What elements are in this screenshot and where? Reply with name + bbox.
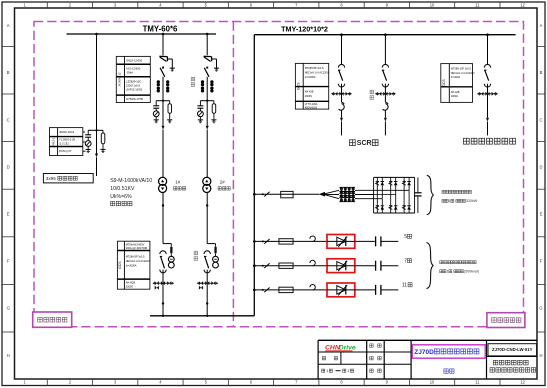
svg-text:450/V600S: 450/V600S — [305, 107, 318, 110]
wire T2 secondary — [206, 192, 208, 243]
cable arrow feeder 1 — [161, 101, 164, 130]
transformer T1 — [159, 177, 167, 192]
svg-text:In=200A: In=200A — [451, 76, 461, 79]
current transformers TA1 — [157, 80, 170, 92]
busbar TMY-120*10*2 — [254, 34, 515, 36]
junction tee PT branch 1 — [163, 244, 171, 247]
breaker blade feeder AUX — [484, 70, 489, 81]
svg-text:MT28H-10F 3x0.5: MT28H-10F 3x0.5 — [451, 67, 472, 70]
wire ACB1 to CT row — [162, 270, 164, 284]
wire outgoing feeder AUX — [487, 35, 489, 65]
svg-text:XGN66-12: XGN66-12 — [118, 72, 122, 87]
svg-text:DXN-Q 2T: DXN-Q 2T — [59, 149, 72, 153]
top zone numbers 1-12 — [23, 2, 525, 7]
wire feeder SCR-1 mid — [341, 84, 343, 94]
breaker blade feeder SCR-2 — [382, 70, 387, 81]
svg-text:GCS: GCS — [118, 261, 122, 269]
svg-text:MT28H/3P 3x0.5,: MT28H/3P 3x0.5, — [126, 256, 146, 259]
svg-text:GN19-12/630: GN19-12/630 — [126, 59, 143, 63]
wire rectifier branch — [254, 193, 319, 195]
rectifier bridge U1 thyristors bottom — [376, 206, 411, 210]
svg-text:G: G — [7, 306, 10, 311]
wire feeder AUX mid — [487, 84, 489, 94]
wire outgoing feeder SCR-2 — [384, 35, 386, 65]
breaker ACB1 drawout bottom — [160, 270, 166, 273]
arrester incoming FV — [85, 141, 91, 149]
svg-text:320kW: 320kW — [466, 199, 478, 203]
breaker ACB1 blade — [160, 256, 165, 268]
svg-text:H: H — [539, 353, 542, 358]
CT row feeder AUX — [477, 92, 498, 96]
current transformer curl feeder SCR-1 — [339, 94, 345, 118]
label designed cell — [370, 344, 381, 347]
capacitor incoming surge C — [85, 130, 91, 140]
svg-text:S9-M-1600kVA/10: S9-M-1600kVA/10 — [110, 178, 152, 184]
cable arrow feeder SCR-1 — [340, 118, 343, 136]
svg-text:Y1.5WS-0.28: Y1.5WS-0.28 — [59, 138, 75, 142]
svg-text:A: A — [540, 23, 543, 28]
isolating switch rectifier — [262, 192, 270, 197]
wire HV feeder 2 — [206, 34, 208, 55]
ground earth-switch QS2 — [214, 68, 219, 71]
ground arrester 1 — [154, 120, 159, 123]
svg-text:JYN2-12: JYN2-12 — [52, 135, 56, 147]
svg-text:D: D — [539, 164, 542, 169]
wire stubs PT table to branch — [83, 132, 86, 151]
logo CHNDrive — [325, 344, 356, 351]
current transformers TA2 — [201, 80, 214, 92]
label harmonic order 7th — [404, 259, 411, 265]
svg-text:2#: 2# — [220, 179, 226, 184]
ground tube 1 — [167, 120, 172, 123]
svg-text:11: 11 — [475, 2, 480, 7]
svg-text:E: E — [7, 212, 10, 217]
junction tee arrester branch 1 — [156, 100, 170, 102]
current transformer curl feeder SCR-2 — [383, 94, 389, 118]
svg-text:1: 1 — [347, 368, 349, 373]
disconnector QS1 with earth switch — [159, 56, 172, 67]
room label LV house — [487, 313, 525, 328]
cable arrow feeder SCR-2 — [384, 118, 387, 136]
outgoing table GCS 2 — [441, 64, 475, 103]
CT row feeder 1 — [153, 281, 174, 290]
fuse FU rectifier — [281, 191, 293, 197]
svg-text:12: 12 — [520, 380, 525, 385]
drawing title box — [412, 345, 485, 358]
svg-text:H: H — [7, 353, 10, 358]
wire QF1 to CT — [162, 77, 164, 101]
capacitor DC link — [414, 177, 421, 213]
svg-text:GCS: GCS — [296, 82, 300, 90]
breaker blade QF1 — [160, 68, 165, 77]
wire QF2 to CT — [206, 77, 208, 101]
svg-text:MT28H/3P 3x0.5,: MT28H/3P 3x0.5, — [305, 67, 325, 70]
CT curl filter 7th — [310, 260, 315, 265]
svg-text:12: 12 — [520, 2, 525, 7]
brace filter group — [427, 243, 434, 289]
label harmonic order 11th — [402, 283, 412, 289]
label transformer 2# — [218, 179, 230, 190]
svg-text:In=1600A: In=1600A — [305, 76, 316, 79]
drawout contact bottom feeder SCR-1 — [338, 84, 344, 87]
wire to transformer T2 — [206, 130, 208, 178]
label scale cell — [322, 356, 337, 359]
cable arrow feeder AUX — [486, 118, 489, 136]
wire phases to bridge — [355, 190, 374, 198]
svg-text:JDZJ9-10G3: JDZJ9-10G3 — [59, 130, 75, 134]
fuse FU filter 5th — [279, 239, 293, 244]
svg-text:/1.3 131: /1.3 131 — [59, 142, 69, 146]
svg-text:/10P15 10/5S: /10P15 10/5S — [126, 88, 142, 92]
svg-text:Uk%=6%: Uk%=6% — [110, 194, 132, 200]
left zone strip dividers — [2, 46, 15, 332]
capacitor filter C5th — [376, 236, 399, 246]
arrester F1 — [153, 111, 159, 119]
fuse PT 2 — [214, 247, 216, 253]
svg-text:HY5WS-17/50: HY5WS-17/50 — [126, 97, 144, 101]
svg-text:1: 1 — [326, 368, 328, 373]
svg-text:SCR: SCR — [357, 140, 372, 147]
svg-text:7: 7 — [404, 259, 407, 265]
node busbar2 taps — [340, 33, 489, 36]
fuse FU filter 7th — [279, 263, 293, 268]
wire ACB2 to CT row — [206, 270, 208, 284]
svg-text:C: C — [539, 117, 542, 122]
svg-text:F: F — [540, 259, 543, 264]
CT row feeder SCR-1 — [331, 92, 352, 96]
label checked cell — [370, 356, 381, 359]
label to auxiliary box transformer — [463, 138, 515, 144]
label TMY-120*10*2 — [281, 25, 328, 34]
breaker blade feeder SCR-1 — [338, 70, 343, 81]
junction tee arrester branch 2 — [200, 100, 214, 102]
transformer T2 — [203, 177, 211, 192]
svg-text:11: 11 — [475, 380, 480, 385]
svg-text:-25kA: -25kA — [126, 70, 133, 74]
title block grid — [318, 340, 537, 379]
disconnector QS2 with earth switch — [204, 56, 217, 67]
drawout contact top feeder SCR-2 — [382, 64, 388, 67]
svg-text:TMY-120*10*2: TMY-120*10*2 — [281, 25, 328, 34]
label TMY-60*6 — [143, 24, 178, 33]
capacitor filter C7th — [376, 261, 399, 271]
breaker blade QF2 — [204, 68, 209, 77]
dashed room divider wall — [232, 22, 234, 327]
arrester tube 2 — [212, 101, 216, 120]
svg-text:10: 10 — [430, 380, 435, 385]
svg-text:TMY-60*6: TMY-60*6 — [143, 24, 178, 33]
reactor L2 — [339, 191, 355, 197]
svg-text:3x95: 3x95 — [46, 176, 56, 181]
capacitor surge 2 — [197, 101, 203, 111]
PT cubicle table incoming — [50, 128, 83, 156]
value label transformer specs — [110, 178, 152, 206]
label drawing number — [488, 344, 537, 356]
wire feeder 2 to LV bus — [206, 283, 208, 316]
label sheet count cell — [322, 368, 354, 373]
label same-as-left LV — [194, 251, 198, 260]
ground incoming right — [100, 149, 105, 152]
label to SCR house — [349, 140, 378, 147]
busbar TMY-60*6 — [67, 33, 217, 35]
LV switchgear table GCS left — [117, 241, 150, 289]
node riser taps — [253, 193, 256, 291]
svg-text:150/5 2x0.5: 150/5 2x0.5 — [126, 84, 141, 88]
dashed room boundary frame — [34, 22, 524, 327]
svg-text:AH-42B: AH-42B — [451, 91, 460, 94]
svg-text:C: C — [7, 117, 10, 122]
label same-as-left HV — [191, 77, 195, 86]
thyristor valve V7th in red box — [327, 259, 375, 273]
svg-text:D: D — [7, 164, 10, 169]
label approved cell — [370, 369, 381, 372]
wire feeder 1 to LV bus — [162, 283, 164, 316]
wire filter branch 5th — [254, 240, 327, 242]
wire HV feeder 1 — [162, 34, 164, 55]
CT curl filter 11th — [310, 284, 315, 289]
label company name — [490, 360, 536, 372]
svg-text:Drive: Drive — [339, 344, 356, 351]
label same-as-left outgoing — [370, 90, 374, 99]
junction dot QS1 — [162, 67, 164, 69]
wire filter branch 11th — [254, 289, 327, 291]
bottom zone numbers 1-12 — [23, 380, 525, 385]
rectifier bridge U1 rails — [374, 177, 415, 213]
room label HV house — [33, 312, 72, 327]
reactor L3 — [339, 196, 355, 202]
CT curl filter 5th — [310, 236, 315, 241]
wire feeder AUX lower — [487, 94, 489, 118]
svg-text:GCS: GCS — [442, 79, 446, 87]
ground arrester 2 — [198, 120, 203, 123]
left zone letters A-H — [7, 23, 10, 358]
wire filter branch 7th — [254, 265, 327, 267]
junction dot QS2 — [206, 67, 208, 69]
svg-text:B: B — [540, 70, 543, 75]
wire LV main riser — [253, 35, 255, 316]
cable arrow incoming — [95, 154, 98, 177]
svg-text:11: 11 — [402, 283, 407, 289]
svg-text:5: 5 — [404, 234, 407, 240]
breaker ACB2 blade — [204, 256, 209, 268]
breaker ACB2 drawout bottom — [204, 270, 210, 273]
svg-text:AH-42B: AH-42B — [305, 91, 314, 94]
svg-text:10: 10 — [430, 2, 435, 7]
breaker ACB1 drawout top — [160, 251, 166, 254]
svg-text:2000S: 2000S — [305, 95, 313, 98]
arrester tube 1 — [168, 101, 172, 120]
svg-text:NECA/A 1/-0 AC220V: NECA/A 1/-0 AC220V — [451, 72, 475, 75]
reactor L1 — [339, 187, 355, 193]
label transformer 1# — [174, 179, 186, 190]
capacitor filter C11th — [376, 285, 399, 295]
svg-text:E: E — [540, 212, 543, 217]
label drafter name — [444, 369, 454, 373]
right zone strip dividers — [537, 46, 545, 332]
svg-text:ZJ70D-CND-LW-01Y: ZJ70D-CND-LW-01Y — [492, 347, 533, 352]
drawout contact bottom feeder AUX — [484, 84, 490, 87]
wire phase jogs inside bridge — [374, 190, 410, 198]
CT row feeder SCR-2 — [375, 92, 396, 96]
value label rectifier — [442, 190, 478, 203]
capacitor surge 1 — [153, 101, 159, 111]
svg-text:400A-Q2 400/700R: 400A-Q2 400/700R — [126, 247, 148, 250]
drawout contact top feeder AUX — [484, 64, 490, 67]
junction tee incoming PT branch — [88, 129, 103, 131]
LV busbar left section — [150, 315, 254, 317]
drawout contact top feeder SCR-1 — [338, 64, 344, 67]
value label SVC filter — [440, 261, 479, 274]
cable arrow feeder 2 — [206, 101, 209, 130]
svg-text:10/0.51KV: 10/0.51KV — [110, 186, 135, 192]
metering PT 2 — [213, 253, 219, 268]
rectifier bridge U1 legs — [377, 177, 409, 213]
ground incoming left — [86, 149, 91, 152]
drawout contact bottom feeder SCR-2 — [382, 84, 388, 87]
svg-text:VS1-12/630: VS1-12/630 — [126, 67, 141, 71]
isolating switch filter 11th — [262, 288, 270, 293]
label 3x95 HV cable box — [43, 174, 93, 183]
svg-text:(500kvar): (500kvar) — [464, 270, 479, 274]
ground tube 2 — [211, 120, 216, 123]
rectifier bridge U1 thyristors top — [376, 181, 411, 185]
bottom zone strip ticks — [47, 379, 500, 386]
wire outgoing feeder SCR-1 — [341, 35, 343, 65]
node: busbar taps — [95, 33, 208, 36]
wire to transformer T1 — [162, 130, 164, 178]
svg-text:B: B — [7, 70, 10, 75]
svg-text:NECA/A 1/-0 AC220V: NECA/A 1/-0 AC220V — [126, 260, 150, 263]
svg-text:LZZBJ9-10C: LZZBJ9-10C — [126, 80, 141, 84]
switchgear table XGN66-12 — [116, 56, 150, 102]
svg-text:F: F — [7, 259, 10, 264]
junction tee PT branch 2 — [207, 244, 215, 247]
metering PT 1 — [168, 253, 174, 268]
svg-text:AH-4QB: AH-4QB — [126, 282, 136, 285]
wire incoming feeder — [96, 34, 98, 154]
wire T1 secondary — [162, 192, 164, 243]
ground earth-switch QS1 — [170, 68, 175, 71]
svg-text:1#: 1# — [175, 179, 181, 184]
fan-out 3-phase node — [319, 190, 339, 198]
svg-text:1: 1 — [447, 270, 449, 274]
svg-text:A: A — [7, 23, 10, 28]
wire feeder SCR-2 mid — [384, 84, 386, 94]
brace rectifier group — [427, 175, 434, 214]
svg-text:1000A: 1000A — [451, 95, 459, 98]
thyristor valve V5th in red box — [327, 235, 375, 249]
arrester incoming right tube — [101, 130, 105, 149]
svg-text:In=2000A: In=2000A — [126, 265, 137, 268]
CT row feeder 2 — [197, 281, 218, 290]
isolating switch filter 7th — [262, 263, 270, 268]
breaker ACB2 drawout top — [204, 251, 210, 254]
fuse FU filter 11th — [279, 287, 293, 292]
thyristor valve V11th in red box — [327, 283, 375, 297]
top zone strip ticks — [47, 2, 500, 8]
svg-text:2000S: 2000S — [126, 285, 134, 288]
fuse PT 1 — [170, 247, 172, 253]
svg-text:ZJ70D: ZJ70D — [414, 349, 434, 356]
svg-text:G: G — [539, 306, 542, 311]
label harmonic order 5th — [404, 234, 411, 240]
svg-text:1: 1 — [449, 199, 451, 203]
svg-text:NECA/A 1/-0 AC220V: NECA/A 1/-0 AC220V — [305, 72, 329, 75]
outgoing table GCS 1 — [295, 63, 329, 109]
arrester F2 — [198, 111, 204, 119]
right zone letters A-H — [539, 23, 542, 358]
isolating switch filter 5th — [262, 239, 270, 244]
